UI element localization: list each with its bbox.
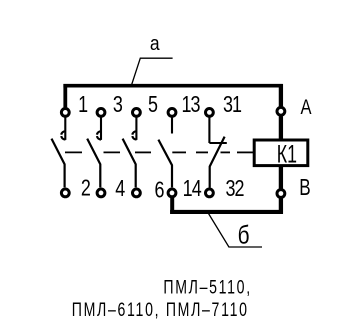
svg-text:б: б: [238, 220, 250, 249]
svg-text:6: 6: [155, 177, 165, 203]
svg-text:A: A: [300, 96, 311, 120]
svg-text:К1: К1: [277, 139, 297, 168]
svg-text:4: 4: [115, 176, 125, 202]
svg-text:5: 5: [148, 92, 158, 118]
svg-text:2: 2: [81, 176, 91, 202]
svg-text:3: 3: [113, 92, 123, 118]
svg-text:13: 13: [181, 92, 200, 118]
svg-text:32: 32: [225, 176, 244, 202]
svg-text:ПМЛ–6110, ПМЛ–7110: ПМЛ–6110, ПМЛ–7110: [72, 299, 249, 321]
svg-text:14: 14: [183, 176, 202, 202]
svg-text:ПМЛ–5110,: ПМЛ–5110,: [163, 276, 251, 298]
svg-text:а: а: [150, 33, 160, 56]
svg-text:31: 31: [223, 92, 242, 118]
svg-text:1: 1: [78, 92, 88, 118]
svg-text:B: B: [299, 176, 310, 201]
